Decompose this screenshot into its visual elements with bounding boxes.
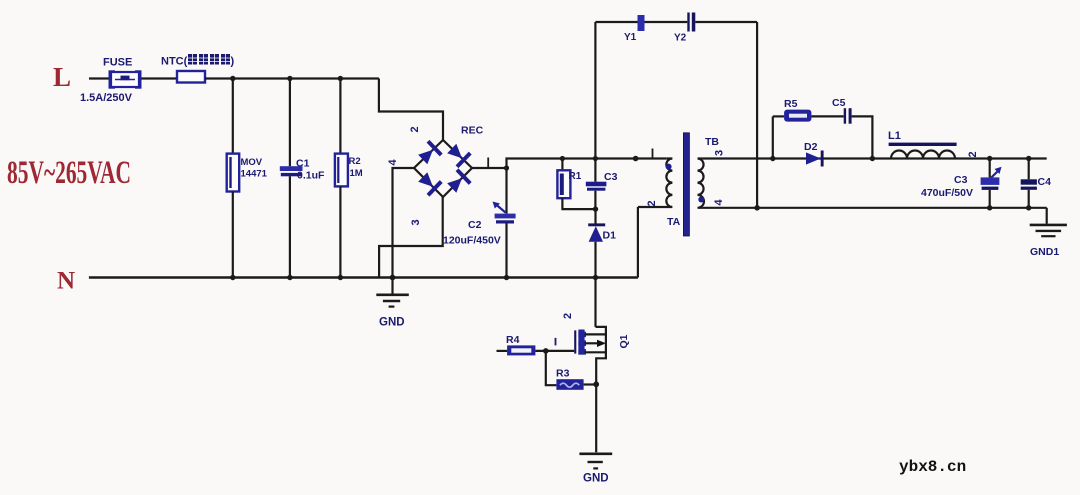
svg-text:4: 4 bbox=[387, 159, 399, 166]
transformer TB polarity dot bbox=[698, 197, 704, 203]
transistor Q1 channel bar bbox=[578, 330, 586, 355]
capacitor Y2 plates bbox=[687, 13, 695, 32]
node junction dot main line x635 bbox=[633, 156, 639, 162]
label Q1 gate pin 1 tick bbox=[555, 338, 557, 346]
svg-text:GND: GND bbox=[379, 317, 405, 329]
inductor L1 core bar bbox=[889, 143, 957, 146]
svg-text:Q1: Q1 bbox=[618, 334, 630, 348]
svg-text:): ) bbox=[231, 56, 235, 68]
svg-text:GND1: GND1 bbox=[1030, 246, 1059, 258]
svg-text:D1: D1 bbox=[603, 230, 617, 242]
wire source down to ground bbox=[595, 384, 597, 452]
ground GND1 secondary bbox=[1030, 208, 1067, 236]
transformer core bar bbox=[683, 133, 689, 236]
wire Y-loop right vertical to secondary rail bbox=[756, 22, 758, 208]
wire C2 top lead and main DC line corner bbox=[507, 159, 667, 214]
svg-text:120uF/450V: 120uF/450V bbox=[443, 235, 501, 247]
diode bridge upper-right bbox=[445, 142, 472, 169]
svg-text:2: 2 bbox=[646, 200, 658, 206]
svg-text:TB: TB bbox=[705, 136, 719, 148]
wire bridge pin 3 step down to rail bbox=[379, 197, 443, 278]
ground GND primary bridge bbox=[376, 278, 409, 307]
wire R4 left lead bbox=[497, 350, 508, 352]
wire snubber to R5 bbox=[773, 115, 784, 117]
svg-text:3: 3 bbox=[410, 219, 422, 225]
svg-text:R3: R3 bbox=[556, 368, 570, 380]
wire bridge pin 1 to C2 branch bbox=[472, 167, 507, 169]
wire R2 bottom lead bbox=[339, 186, 341, 277]
svg-text:1M: 1M bbox=[350, 168, 363, 179]
wire Y-cap top loop left segment bbox=[595, 21, 687, 23]
wire Q1 drain stub bbox=[585, 333, 606, 335]
wire Q1 substrate arrow bbox=[585, 342, 598, 344]
wire snubber left vertical bbox=[772, 116, 774, 158]
wire MOV top lead bbox=[232, 79, 234, 154]
wire R2 top lead bbox=[339, 79, 341, 154]
diode bridge lower-left bbox=[416, 170, 443, 197]
capacitor C3 output electrolytic bbox=[981, 167, 1002, 190]
svg-text:FUSE: FUSE bbox=[103, 57, 132, 69]
transformer TA primary winding bbox=[638, 159, 673, 207]
node junction dots on N rail bbox=[230, 275, 235, 280]
thermistor NTC body bbox=[177, 71, 205, 83]
svg-text:C5: C5 bbox=[832, 97, 846, 109]
wire C4 top lead bbox=[1028, 159, 1030, 180]
wire C5 to right vertical bbox=[852, 116, 873, 158]
svg-text:C3: C3 bbox=[954, 174, 968, 186]
wire secondary bottom rail bbox=[703, 207, 1047, 209]
wire corner down and over to bridge pin 2 bbox=[379, 79, 443, 141]
resistor R5 body bbox=[784, 110, 811, 122]
wire C4 bottom lead bbox=[1028, 190, 1030, 208]
svg-text:1.5A/250V: 1.5A/250V bbox=[80, 92, 133, 104]
varistor MOV body bbox=[227, 154, 240, 192]
wire R1 top stub bbox=[561, 159, 563, 171]
node junction dot snubber left bbox=[770, 156, 775, 161]
wire Y-loop left vertical down through main line to C3 bbox=[594, 22, 596, 182]
svg-text:C1: C1 bbox=[296, 158, 310, 170]
svg-text:2: 2 bbox=[562, 313, 574, 319]
transistor Q1 MOSFET gate bar bbox=[574, 330, 576, 353]
svg-text:Y1: Y1 bbox=[624, 32, 637, 43]
wire NTC to top-right corner bbox=[205, 77, 379, 79]
svg-text:D2: D2 bbox=[804, 141, 818, 153]
resistor R3 body bbox=[556, 379, 583, 390]
wire R3 branch from gate node bbox=[546, 351, 557, 385]
label TA pin 1 tick bbox=[652, 149, 654, 159]
wire R4 to gate bbox=[535, 350, 574, 352]
node junction dot C4 top bbox=[1026, 156, 1031, 161]
diode bridge upper-left bbox=[416, 140, 443, 167]
wire N rail bbox=[89, 276, 638, 278]
svg-text:3: 3 bbox=[714, 150, 726, 156]
svg-text:N: N bbox=[57, 268, 75, 295]
capacitor Y1 bbox=[638, 15, 645, 31]
svg-text:470uF/50V: 470uF/50V bbox=[921, 187, 973, 199]
svg-text:85V~265VAC: 85V~265VAC bbox=[7, 155, 131, 191]
node junction dot gate node bbox=[543, 348, 549, 354]
svg-text:R1: R1 bbox=[569, 171, 582, 182]
svg-text:MOV: MOV bbox=[241, 157, 263, 168]
capacitor C2 electrolytic bbox=[493, 202, 516, 224]
diode D1 bbox=[588, 223, 605, 241]
wire C1 bottom lead bbox=[289, 176, 291, 277]
node junction dot L/MOV bbox=[230, 76, 235, 81]
fuse FUSE body bbox=[109, 70, 142, 88]
node junction dot main line x595 bbox=[593, 156, 598, 161]
wire MOV bottom lead bbox=[232, 192, 234, 278]
capacitor C1 plates bbox=[280, 166, 303, 176]
node junction dot C3out bottom bbox=[987, 205, 992, 210]
wire Y-cap top loop right segment bbox=[695, 21, 757, 23]
svg-text:2: 2 bbox=[409, 126, 421, 132]
node junction dot Y-loop secondary rail bbox=[754, 205, 760, 211]
wire bridge pin 4 to ground rail bbox=[393, 168, 415, 278]
node junction dot R1/main line bbox=[560, 156, 565, 161]
wire R1 bottom to C3 bottom junction bbox=[562, 198, 595, 209]
wire R5 to C5 bbox=[811, 115, 843, 117]
node junction dot C3out top bbox=[987, 156, 992, 161]
label NTC(热敏电阻) bbox=[161, 54, 235, 68]
capacitor C5 plates bbox=[844, 108, 852, 124]
svg-text:R2: R2 bbox=[349, 156, 361, 167]
node junction dot C4 bottom bbox=[1026, 205, 1031, 210]
svg-text:R5: R5 bbox=[784, 98, 798, 110]
svg-text:Y2: Y2 bbox=[674, 33, 687, 44]
svg-text:REC: REC bbox=[461, 125, 484, 137]
node junction dot source/R3 bbox=[593, 381, 599, 387]
node junction dot snubber right bbox=[870, 156, 875, 161]
wire C1 top lead bbox=[289, 79, 291, 167]
ground GND source bbox=[579, 454, 612, 469]
svg-text:R4: R4 bbox=[506, 334, 520, 346]
capacitor C4 plates bbox=[1021, 179, 1037, 190]
svg-text:GND: GND bbox=[583, 473, 609, 485]
resistor R4 body bbox=[507, 345, 535, 355]
wire Q1 drain jog bbox=[596, 327, 606, 384]
resistor R2 body bbox=[335, 154, 348, 187]
svg-text:2: 2 bbox=[967, 151, 979, 157]
wire C3 output bottom lead bbox=[989, 190, 991, 208]
svg-text:TA: TA bbox=[667, 216, 681, 228]
svg-text:L1: L1 bbox=[888, 130, 901, 142]
wire C2 bottom lead bbox=[505, 224, 507, 278]
transformer TB secondary winding bbox=[698, 159, 704, 208]
node junction dot L/C1 bbox=[287, 76, 292, 81]
wire TA pin 2 return to rail bbox=[637, 207, 639, 278]
inductor L1 winding bbox=[891, 151, 955, 159]
svg-text:C3: C3 bbox=[604, 171, 618, 183]
wire C3 bottom stub bbox=[594, 191, 596, 209]
wire fuse to NTC bbox=[142, 77, 178, 79]
wire secondary top line TB pin3 to output bbox=[703, 157, 1047, 159]
diode D2 bbox=[806, 151, 824, 167]
svg-text:14471: 14471 bbox=[241, 169, 268, 180]
node junction dot pin1/C2 bbox=[504, 165, 509, 170]
wire D1 bottom through rail to Q1 drain bbox=[594, 242, 596, 327]
resistor R1 body bbox=[557, 170, 570, 198]
wire junction to D1 top bbox=[594, 209, 596, 223]
diode bridge lower-right bbox=[445, 168, 472, 195]
node junction dot snubber bottom bbox=[593, 206, 598, 211]
wire Q1 source stub bbox=[585, 351, 606, 353]
wire L terminal to fuse F1 bbox=[89, 77, 110, 79]
svg-text:0.1uF: 0.1uF bbox=[297, 170, 325, 182]
wire R3 to source node bbox=[584, 383, 597, 385]
svg-text:C2: C2 bbox=[468, 219, 482, 231]
svg-text:ybx8.cn: ybx8.cn bbox=[899, 458, 966, 476]
svg-text:4: 4 bbox=[713, 199, 725, 206]
label bridge pin 1 tick bbox=[487, 158, 489, 169]
svg-text:L: L bbox=[53, 62, 71, 92]
node junction dot L/R2 bbox=[338, 76, 343, 81]
capacitor C3 snubber plates bbox=[586, 182, 607, 191]
svg-text:C4: C4 bbox=[1038, 176, 1052, 188]
wire C3 output top lead bbox=[989, 159, 991, 178]
bridge rectifier REC diamond outline bbox=[414, 140, 472, 197]
svg-text:NTC(: NTC( bbox=[161, 56, 188, 68]
transformer TA polarity dot bbox=[666, 164, 672, 170]
